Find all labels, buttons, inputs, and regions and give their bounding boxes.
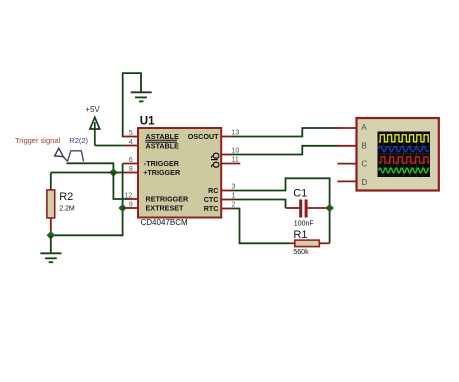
label C1 value [293, 187, 313, 227]
svg-text:1: 1 [232, 193, 236, 200]
svg-text:C: C [361, 160, 367, 169]
pin 12 RETRIGGER [124, 193, 189, 204]
scope pin D [338, 178, 368, 187]
pin 4 /ASTABLE [123, 139, 179, 151]
waveform channel A yellow [379, 135, 430, 142]
pin 6 -TRIGGER [123, 157, 180, 168]
ground (bottom) [40, 253, 61, 262]
wire pin 3 to C1/R1 junction [231, 178, 330, 243]
waveform channel C red [379, 157, 430, 163]
junction R2 bottom [47, 231, 55, 239]
label R2 value [59, 191, 75, 213]
svg-text:9: 9 [129, 202, 133, 209]
resistor R1 [290, 240, 330, 247]
svg-text:RC: RC [208, 186, 218, 195]
svg-text:EXTRESET: EXTRESET [146, 204, 185, 213]
svg-text:11: 11 [232, 157, 239, 164]
junction pin 9 [118, 204, 126, 212]
svg-text:R2(2): R2(2) [69, 136, 88, 145]
pin 2 RTC [204, 202, 236, 214]
svg-text:4: 4 [129, 139, 133, 146]
label U1 [140, 115, 155, 127]
generator trigger symbol [55, 148, 84, 161]
oscilloscope body [357, 118, 439, 191]
svg-text:13: 13 [232, 130, 240, 137]
svg-text:10: 10 [232, 148, 240, 155]
screen grid [378, 132, 431, 178]
svg-text:+5V: +5V [85, 105, 100, 114]
wire pin 1 to C1 left [231, 200, 286, 209]
svg-text:6: 6 [129, 157, 133, 164]
svg-text:2: 2 [232, 202, 236, 209]
waveform channel B blue [379, 146, 429, 151]
IC U1 body [138, 128, 221, 218]
svg-text:-TRIGGER: -TRIGGER [144, 159, 180, 168]
wire R2 bottom to ground [50, 235, 52, 252]
svg-text:5: 5 [129, 130, 133, 137]
ground (top) [131, 92, 152, 101]
pin 8 +TRIGGER [123, 166, 181, 177]
svg-text:B: B [361, 141, 366, 150]
wire pin 2 to R1 [231, 209, 290, 244]
svg-text:+TRIGGER: +TRIGGER [143, 168, 181, 177]
resistor R2 [47, 190, 55, 235]
wire trigger to junction [67, 163, 114, 172]
scope pin C [338, 160, 368, 169]
svg-text:2.2M: 2.2M [59, 205, 75, 212]
svg-text:RETRIGGER: RETRIGGER [146, 195, 190, 204]
label CD4047BCM [141, 218, 188, 227]
junction C1 right [325, 204, 333, 212]
capacitor C1 [286, 200, 330, 218]
label R1 value [293, 229, 309, 256]
svg-text:D: D [361, 178, 367, 187]
scope pin A [338, 123, 368, 132]
svg-text:12: 12 [124, 193, 132, 200]
svg-text:RTC: RTC [204, 204, 219, 213]
svg-text:CTC: CTC [204, 195, 219, 204]
waveform channel D green [379, 168, 429, 173]
wire pin 6 down to pin 9 and bottom [51, 164, 123, 236]
svg-text:CD4047BCM: CD4047BCM [141, 218, 188, 227]
scope pin B [338, 141, 367, 150]
svg-text:Trigger signal: Trigger signal [15, 136, 60, 145]
svg-text:R1: R1 [293, 229, 307, 241]
svg-text:A: A [361, 123, 367, 132]
wire pin 13 to scope A [231, 128, 339, 137]
label R2(2) [69, 136, 88, 145]
svg-text:3: 3 [232, 184, 236, 191]
svg-text:ASTABLE: ASTABLE [146, 142, 180, 151]
svg-text:U1: U1 [140, 115, 155, 127]
pin 3 RC [208, 184, 235, 196]
power +5V label [85, 105, 100, 114]
scope screen [378, 132, 431, 178]
svg-text:R2: R2 [59, 191, 73, 203]
wire junction to pin 12 [113, 173, 129, 200]
pin 13 OSCOUT [188, 130, 240, 142]
svg-text:Q: Q [211, 152, 221, 159]
pin 10 Q [211, 148, 240, 160]
svg-text:C1: C1 [293, 187, 307, 199]
wire R2 top to pin 8 [51, 173, 123, 191]
svg-text:100nF: 100nF [294, 220, 314, 227]
svg-text:OSCOUT: OSCOUT [188, 132, 219, 141]
svg-text:Q: Q [211, 161, 221, 168]
pin 11 /Q [211, 157, 241, 169]
pin 9 EXTRESET [123, 202, 184, 213]
label Trigger signal [15, 136, 60, 145]
pin 5 ASTABLE [123, 130, 179, 141]
wire +5V to pin 4 [95, 145, 123, 147]
wire pin 10 to scope B [231, 146, 339, 155]
svg-text:ASTABLE: ASTABLE [146, 132, 180, 141]
junction trigger/pin8 [109, 168, 117, 176]
power symbol +5V arrow [90, 117, 100, 145]
wire pin5 to top ground [123, 73, 141, 136]
svg-text:8: 8 [129, 166, 133, 173]
pin 1 CTC [204, 193, 236, 205]
svg-text:560k: 560k [293, 249, 309, 256]
